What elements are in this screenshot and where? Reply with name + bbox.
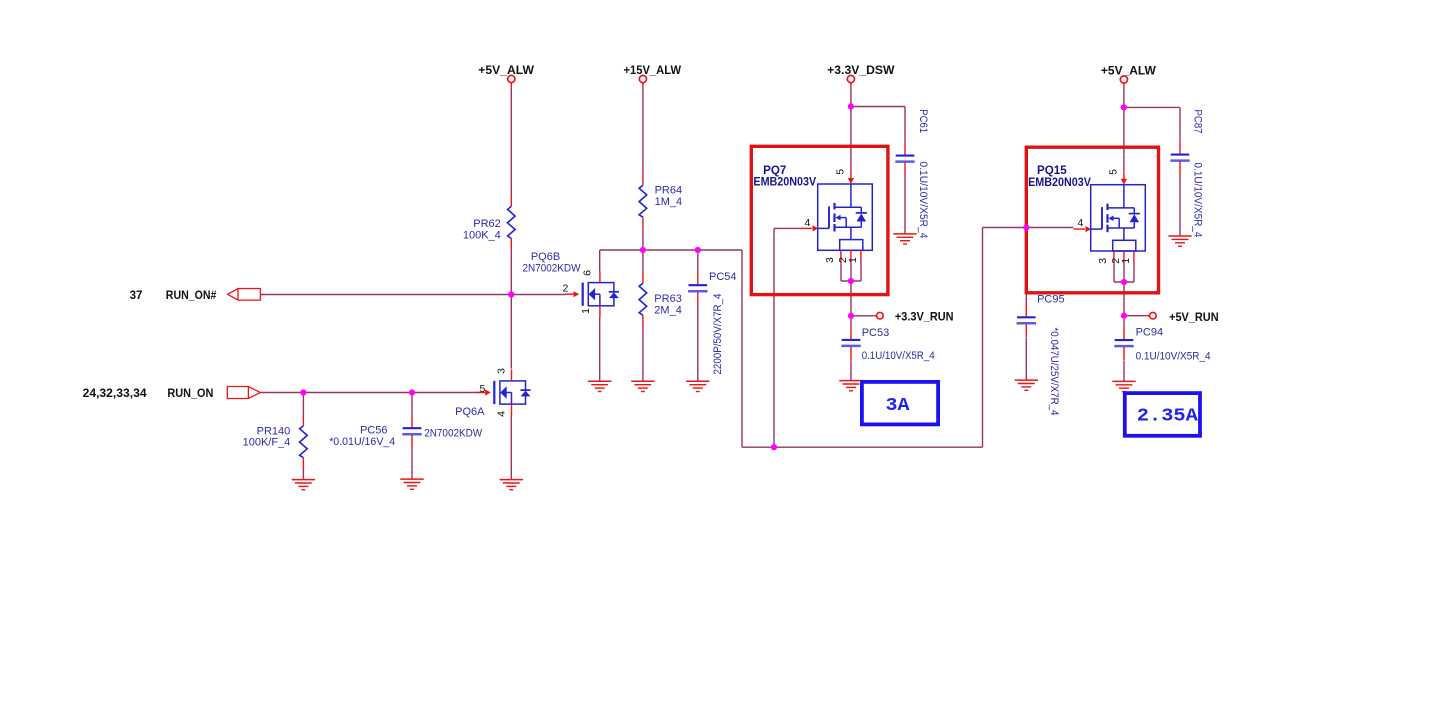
wire <box>1123 262 1125 282</box>
wire <box>1124 107 1180 140</box>
svg-text:PC61: PC61 <box>917 109 929 133</box>
junction <box>1121 104 1127 110</box>
wire <box>860 261 862 281</box>
ground <box>400 479 423 489</box>
ground <box>1168 236 1191 246</box>
transistor PQ15 <box>1074 169 1146 264</box>
svg-text:0.1U/10V/X5R_4: 0.1U/10V/X5R_4 <box>862 350 935 362</box>
svg-text:37: 37 <box>130 289 143 302</box>
capacitor PC95 <box>1017 294 1065 416</box>
wire <box>850 107 852 172</box>
svg-text:PC53: PC53 <box>862 327 890 339</box>
svg-text:PC56: PC56 <box>360 425 388 437</box>
wire <box>983 227 1074 229</box>
current label 2.35A <box>1125 393 1200 436</box>
svg-text:100K_4: 100K_4 <box>463 230 501 242</box>
svg-text:RUN_ON: RUN_ON <box>167 387 213 400</box>
block outline PQ7 <box>751 146 888 294</box>
net +5V_RUN <box>1146 311 1218 324</box>
svg-text:5: 5 <box>480 383 486 395</box>
svg-text:3: 3 <box>495 368 507 374</box>
wire <box>841 280 861 282</box>
ground <box>292 480 315 490</box>
svg-text:EMB20N03V: EMB20N03V <box>1028 176 1091 189</box>
resistor PR140 <box>243 414 308 470</box>
svg-text:2M_4: 2M_4 <box>654 305 682 317</box>
wire <box>1113 262 1115 282</box>
wire <box>1133 262 1135 282</box>
wire <box>1179 175 1181 236</box>
capacitor PC56 <box>329 414 422 448</box>
wire <box>411 393 413 415</box>
junction <box>640 247 646 253</box>
wire <box>642 250 644 271</box>
svg-text:EMB20N03V: EMB20N03V <box>753 176 816 189</box>
wire <box>1124 315 1146 317</box>
svg-text:4: 4 <box>1077 217 1083 229</box>
svg-text:PC87: PC87 <box>1192 110 1204 134</box>
svg-text:+3.3V_RUN: +3.3V_RUN <box>895 311 954 324</box>
wire <box>1123 107 1125 171</box>
wire <box>850 87 852 106</box>
wire <box>1025 338 1027 380</box>
wire <box>599 317 601 381</box>
svg-text:2N7002KDW: 2N7002KDW <box>424 428 483 440</box>
wire <box>851 107 905 142</box>
wire <box>642 326 644 381</box>
resistor PR64 <box>639 173 682 229</box>
svg-text:2200P/50V/X7R_4: 2200P/50V/X7R_4 <box>712 294 724 375</box>
wire <box>904 176 906 234</box>
junction <box>1023 224 1029 230</box>
svg-text:3A: 3A <box>886 395 911 416</box>
svg-text:PC95: PC95 <box>1037 294 1065 306</box>
svg-text:RUN_ON#: RUN_ON# <box>166 289 217 302</box>
ground <box>500 480 523 490</box>
wire <box>1123 316 1125 327</box>
port RUN_ON# <box>130 289 261 303</box>
wire <box>510 295 512 369</box>
junction <box>695 247 701 253</box>
svg-text:2.35A: 2.35A <box>1137 405 1199 426</box>
wire <box>642 229 644 250</box>
svg-text:+5V_ALW: +5V_ALW <box>1101 65 1156 78</box>
block outline PQ15 <box>1026 147 1158 293</box>
wire <box>411 448 413 479</box>
svg-text:0.1U/10V/X5R_4: 0.1U/10V/X5R_4 <box>1136 350 1211 362</box>
wire <box>850 261 852 281</box>
wire <box>260 392 480 394</box>
wire <box>1123 282 1125 316</box>
wire <box>850 316 852 326</box>
svg-text:1: 1 <box>1120 258 1132 264</box>
svg-text:*0.01U/16V_4: *0.01U/16V_4 <box>329 436 395 448</box>
svg-text:*0.047U/25V/X7R_4: *0.047U/25V/X7R_4 <box>1048 328 1060 416</box>
svg-text:1: 1 <box>847 257 859 263</box>
junction <box>848 103 854 109</box>
svg-text:+15V_ALW: +15V_ALW <box>624 64 682 77</box>
svg-text:3: 3 <box>824 257 836 263</box>
svg-text:4: 4 <box>804 217 810 229</box>
transistor PQ6A <box>424 368 530 440</box>
capacitor PC61 <box>895 109 929 238</box>
transistor PQ6B <box>523 251 620 317</box>
wire <box>260 294 565 296</box>
svg-text:PQ6B: PQ6B <box>531 251 560 263</box>
wire <box>600 249 742 251</box>
wire <box>742 446 983 448</box>
wire <box>741 250 743 447</box>
svg-text:PQ6A: PQ6A <box>455 406 485 418</box>
power +3.3V_DSW <box>827 64 894 87</box>
power +5V_ALW (right) <box>1101 65 1156 88</box>
wire <box>773 228 775 447</box>
junction <box>848 278 854 284</box>
wire <box>599 250 601 271</box>
svg-text:3: 3 <box>1097 258 1109 264</box>
svg-text:1M_4: 1M_4 <box>655 196 683 208</box>
svg-text:+5V_ALW: +5V_ALW <box>478 64 534 77</box>
wire <box>1123 88 1125 108</box>
capacitor PC94 <box>1114 326 1210 362</box>
ground <box>686 381 709 391</box>
svg-text:0.1U/10V/X5R_4: 0.1U/10V/X5R_4 <box>917 162 929 239</box>
wire <box>1114 281 1134 283</box>
wire <box>642 87 644 173</box>
wire <box>510 415 512 480</box>
ground <box>1015 380 1038 390</box>
wire <box>1025 228 1027 306</box>
transistor PQ7 <box>801 169 873 263</box>
wire <box>850 281 852 316</box>
svg-text:6: 6 <box>581 270 593 276</box>
svg-text:5: 5 <box>835 169 847 175</box>
svg-text:PC54: PC54 <box>709 271 737 283</box>
wire <box>302 393 304 414</box>
svg-text:24,32,33,34: 24,32,33,34 <box>83 387 148 400</box>
svg-text:+5V_RUN: +5V_RUN <box>1169 311 1219 324</box>
ground <box>839 381 862 391</box>
svg-text:+3.3V_DSW: +3.3V_DSW <box>827 64 894 77</box>
svg-text:100K/F_4: 100K/F_4 <box>243 436 291 448</box>
ground <box>893 234 916 244</box>
svg-text:4: 4 <box>495 411 507 417</box>
power +5V_ALW <box>478 64 534 87</box>
port RUN_ON <box>83 387 261 401</box>
ground <box>1112 381 1135 391</box>
svg-text:2N7002KDW: 2N7002KDW <box>523 263 582 275</box>
svg-text:PC94: PC94 <box>1136 326 1164 338</box>
wire <box>510 250 512 294</box>
svg-text:PR63: PR63 <box>654 293 682 305</box>
junction <box>508 291 514 297</box>
wire <box>851 315 874 317</box>
svg-text:PR62: PR62 <box>473 218 501 230</box>
junction <box>1121 313 1127 319</box>
wire <box>302 468 304 480</box>
svg-text:5: 5 <box>1108 169 1120 175</box>
resistor PR63 <box>639 271 682 327</box>
svg-text:0.1U/10V/X5R_4: 0.1U/10V/X5R_4 <box>1192 163 1204 238</box>
current label 3A <box>862 382 938 425</box>
capacitor PC54 <box>688 271 736 374</box>
wire <box>774 227 801 229</box>
junction <box>771 444 777 450</box>
power +15V_ALW <box>624 64 682 87</box>
svg-text:1: 1 <box>580 308 592 314</box>
capacitor PC87 <box>1170 110 1203 238</box>
svg-text:PR64: PR64 <box>655 185 683 197</box>
wire <box>982 228 984 448</box>
capacitor PC53 <box>841 326 934 362</box>
junction <box>1121 279 1127 285</box>
net +3.3V_RUN <box>874 311 954 324</box>
ground <box>588 381 611 391</box>
junction <box>300 389 306 395</box>
wire <box>1123 361 1125 382</box>
svg-text:2: 2 <box>562 283 568 295</box>
junction <box>848 313 854 319</box>
wire <box>510 87 512 194</box>
junction <box>409 389 415 395</box>
wire <box>850 360 852 380</box>
wire <box>697 250 699 271</box>
wire <box>840 261 842 281</box>
resistor PR62 <box>463 195 515 251</box>
wire <box>697 305 699 381</box>
ground <box>631 381 654 391</box>
